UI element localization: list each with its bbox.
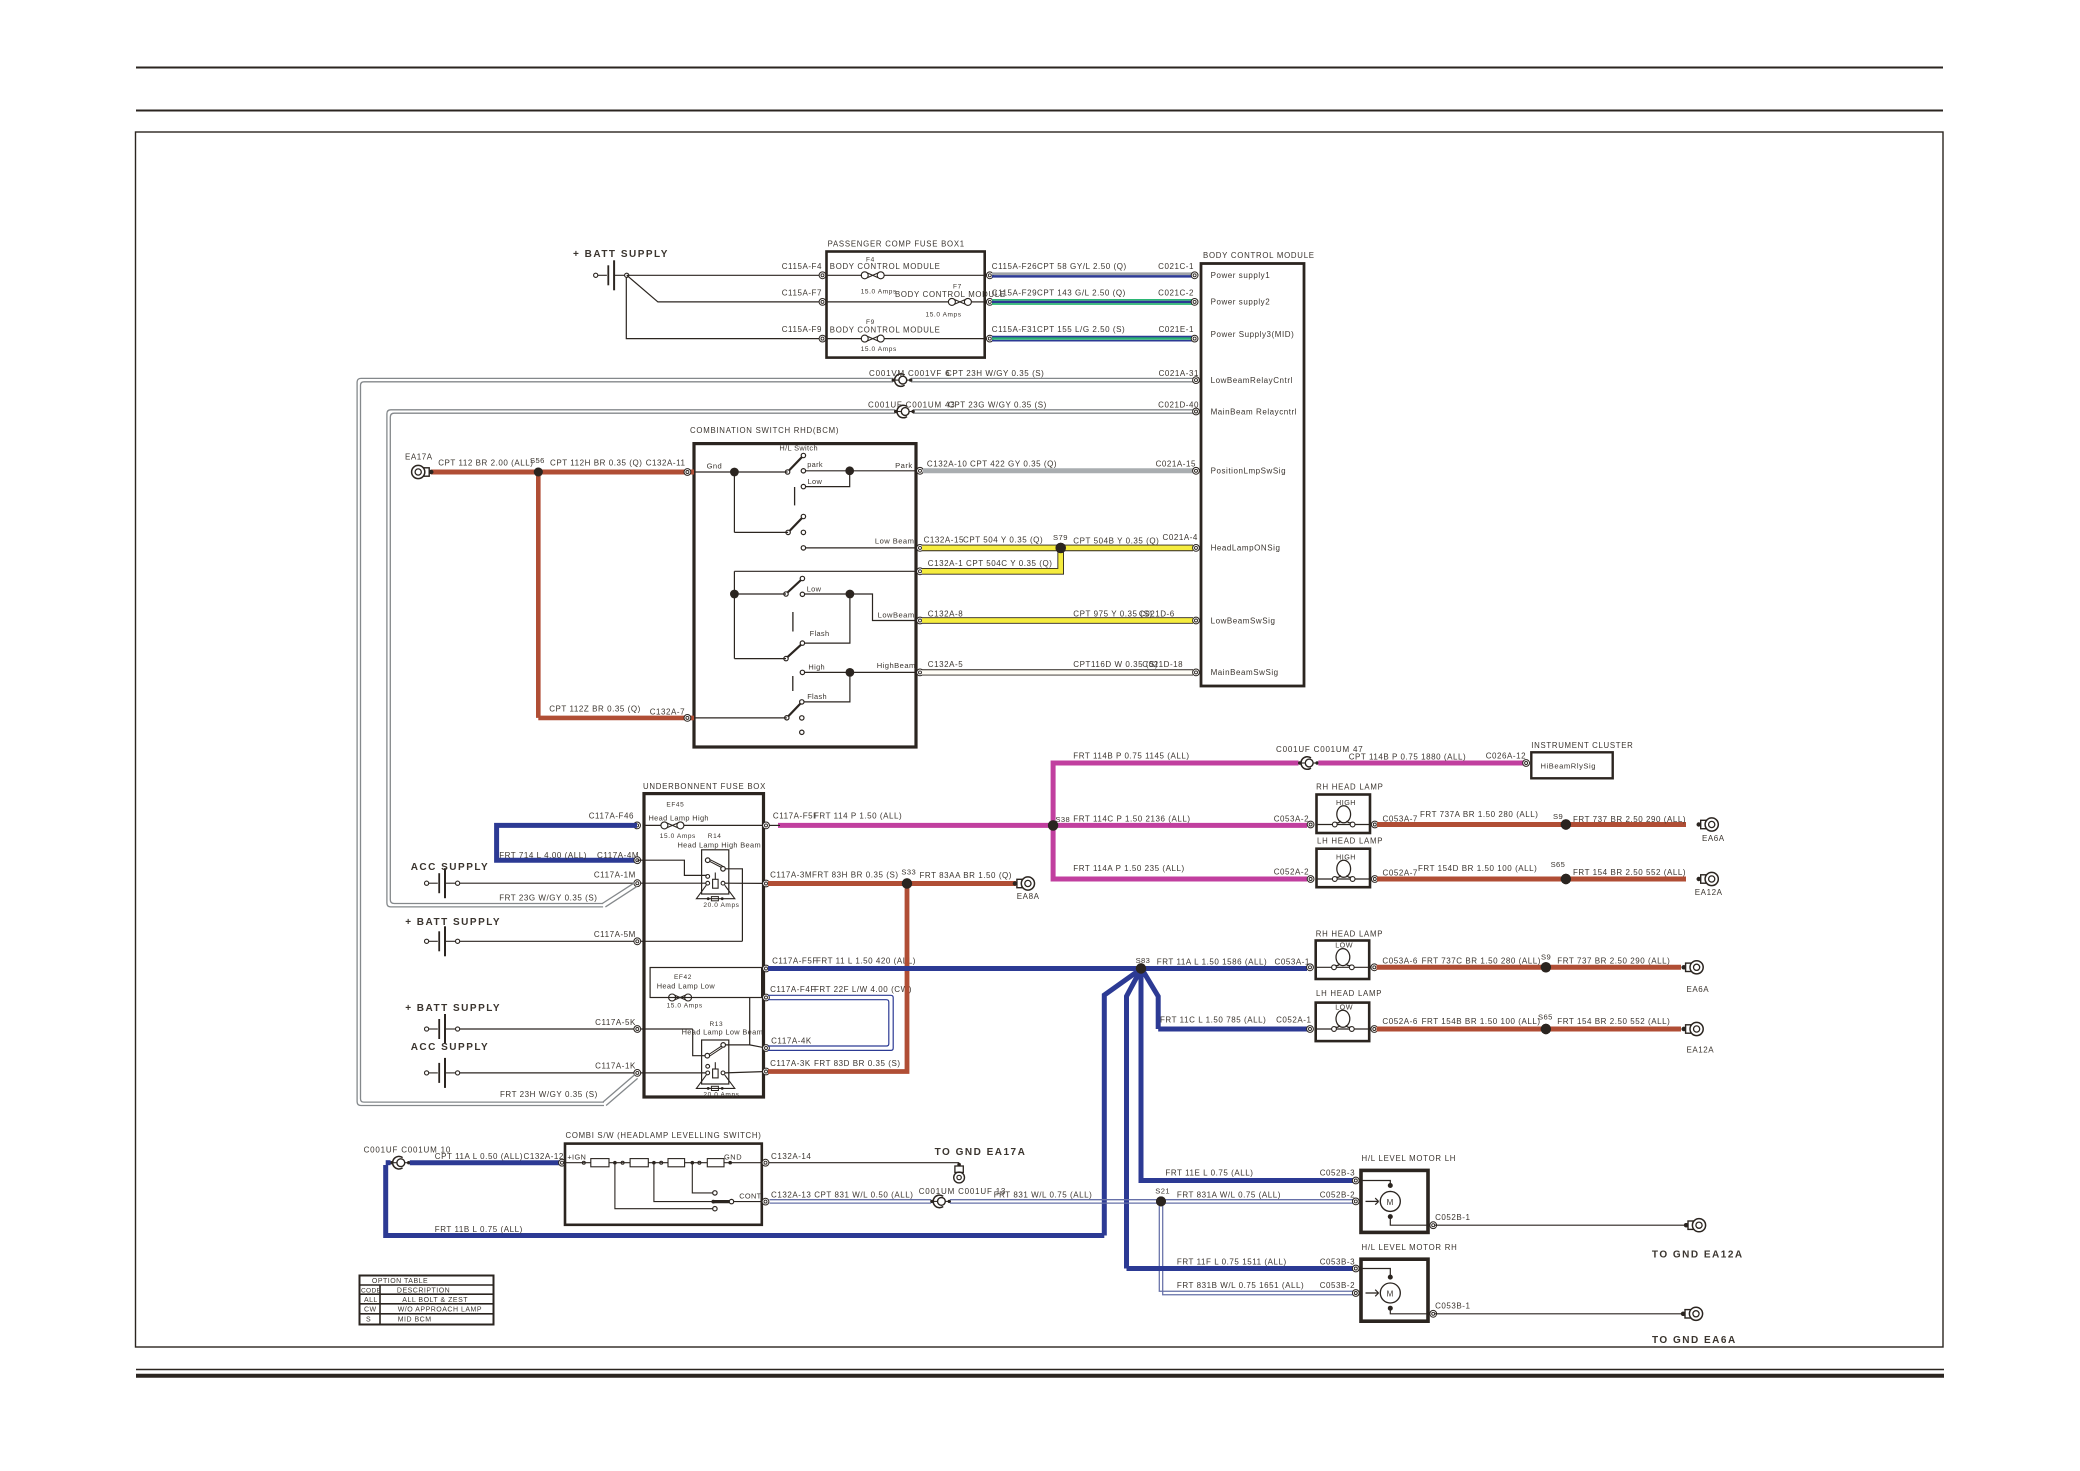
svg-text:S33: S33 (901, 868, 916, 877)
svg-text:S9: S9 (1553, 812, 1563, 821)
wire C052B-1 to gnd (1435, 1223, 1689, 1227)
svg-text:Low Beam: Low Beam (875, 537, 914, 546)
neutral bar dip (792, 612, 794, 632)
svg-text:S21: S21 (1155, 1187, 1170, 1196)
wire FRT 23G diagonal (499, 883, 637, 907)
pin C021D-18 (1193, 669, 1200, 676)
wire CPT 831 pair (770, 1187, 1007, 1208)
junction S65 low dot (1541, 1024, 1551, 1034)
pin C115A-F9 (782, 325, 826, 342)
svg-text:C115A-F4: C115A-F4 (782, 262, 822, 271)
svg-text:C052B-1: C052B-1 (1435, 1213, 1470, 1222)
levelling resistor ladder (565, 1159, 764, 1167)
junction S83 dot (1136, 963, 1146, 973)
svg-text:park: park (807, 460, 823, 469)
wire FRT 737 BR (1566, 815, 1686, 824)
connector C001UF C001UM (868, 401, 956, 418)
svg-text:15.0 Amps: 15.0 Amps (660, 833, 696, 840)
pin comb switch out 672.4 (917, 669, 924, 676)
svg-text:FRT 154D BR 1.50 100 (ALL): FRT 154D BR 1.50 100 (ALL) (1418, 864, 1537, 873)
pin C052A-1 (1307, 1026, 1314, 1033)
svg-text:C132A-5: C132A-5 (928, 660, 963, 669)
levelling wiper (711, 1192, 765, 1204)
svg-text:CPT 112H BR 0.35 (Q): CPT 112H BR 0.35 (Q) (550, 458, 643, 467)
junction S38 (1048, 815, 1070, 831)
fuse EF42 (650, 968, 762, 1010)
svg-text:ALL BOLT & ZEST: ALL BOLT & ZEST (402, 1297, 468, 1304)
BCM pin label Power supply1 (1211, 271, 1271, 280)
wire lowbeam out (806, 537, 916, 548)
wire FRT 11F L (1127, 1257, 1356, 1268)
eyelet EA6A low (1681, 961, 1709, 994)
RH head lamp low box (1316, 930, 1384, 979)
contact lowbeam (801, 546, 805, 550)
svg-text:H/L LEVEL MOTOR RH: H/L LEVEL MOTOR RH (1362, 1243, 1458, 1252)
svg-text:FRT 114C P 1.50 2136 (ALL): FRT 114C P 1.50 2136 (ALL) (1073, 815, 1190, 824)
svg-text:CPT 112Z BR 0.35 (Q): CPT 112Z BR 0.35 (Q) (549, 705, 641, 714)
wire FRT 83AA BR (907, 871, 1016, 883)
wire C132A-1 row internal (734, 570, 916, 572)
pin C115A-F26 (986, 272, 993, 279)
underbonnet fuse box (643, 782, 766, 1097)
svg-text:FRT 11 L 1.50 420 (ALL): FRT 11 L 1.50 420 (ALL) (816, 957, 916, 966)
svg-text:FRT 114B P 0.75 1145 (ALL): FRT 114B P 0.75 1145 (ALL) (1073, 752, 1189, 761)
pin C021A-4 (1193, 545, 1200, 552)
pin C115A-F29 (986, 299, 993, 306)
wire CPT 504C Y (922, 548, 1061, 571)
svg-text:COMBINATION SWITCH RHD(BCM): COMBINATION SWITCH RHD(BCM) (690, 426, 839, 435)
svg-text:DESCRIPTION: DESCRIPTION (397, 1287, 450, 1294)
pin C117A-4M (634, 857, 641, 864)
svg-text:C052A-1: C052A-1 (1276, 1015, 1311, 1024)
svg-text:C021C-1: C021C-1 (1158, 262, 1194, 271)
label H/L Switch (779, 444, 818, 453)
wire CPT 155 L/G (992, 325, 1194, 341)
wire FRT 83D BR (768, 885, 907, 1072)
svg-text:15.0 Amps: 15.0 Amps (861, 289, 897, 296)
fuse F9 (827, 319, 985, 353)
wire CPT 143 G/L (992, 288, 1194, 304)
junction S56 dot (534, 468, 543, 477)
bottom rule thin (136, 1369, 1944, 1371)
wire FRT 154B BR (1377, 1012, 1553, 1029)
svg-text:CPT 112 BR 2.00 (ALL): CPT 112 BR 2.00 (ALL) (438, 458, 533, 467)
pin C117A-F46 (589, 812, 641, 829)
svg-text:CPT 58 GY/L 2.50 (Q): CPT 58 GY/L 2.50 (Q) (1037, 262, 1127, 271)
svg-text:High: High (808, 663, 825, 672)
junction S9 low dot (1541, 962, 1551, 972)
svg-text:C021D-40: C021D-40 (1158, 401, 1199, 410)
junction S33 dot (902, 878, 912, 888)
wire R14 coil out (725, 882, 766, 884)
contact dip low (800, 585, 821, 597)
svg-text:FRT 83AA BR 1.50 (Q): FRT 83AA BR 1.50 (Q) (920, 871, 1013, 880)
pin C117A-1M (594, 871, 641, 887)
wire FRT 11E L (1141, 1169, 1355, 1181)
pin C053A-2 (1307, 821, 1314, 828)
pin C021D-6 (1193, 617, 1200, 624)
svg-text:ACC SUPPLY: ACC SUPPLY (411, 862, 490, 873)
relay R13 (682, 1021, 763, 1099)
pin C132A-11 (684, 469, 691, 476)
svg-text:FRT 22F L/W 4.00 (CW): FRT 22F L/W 4.00 (CW) (814, 985, 912, 994)
wire FRT 114A (1053, 864, 1309, 879)
eyelet gnd EA12A motor (1652, 1219, 1744, 1261)
svg-text:S56: S56 (530, 456, 545, 465)
switch park arm (785, 453, 805, 474)
wire gnd to park pivot (694, 471, 788, 473)
svg-text:EA8A: EA8A (1017, 892, 1040, 901)
svg-text:Flash: Flash (807, 692, 827, 701)
svg-text:CPT 11A L 0.50 (ALL): CPT 11A L 0.50 (ALL) (435, 1152, 523, 1161)
pin C052A-2 (1307, 876, 1314, 883)
gnd bus down (734, 472, 788, 532)
svg-text:20.0 Amps: 20.0 Amps (703, 1092, 739, 1099)
combi s/w levelling box (565, 1131, 762, 1225)
pin C117A-1K (595, 1062, 641, 1077)
eyelet EA12A high (1695, 872, 1723, 897)
wire CPT 114B (1318, 752, 1526, 763)
svg-text:C132A-14: C132A-14 (771, 1152, 811, 1161)
svg-text:C115A-F31: C115A-F31 (992, 325, 1037, 334)
svg-text:CPT 504C Y 0.35 (Q): CPT 504C Y 0.35 (Q) (966, 559, 1053, 568)
switch onoff arm (786, 514, 806, 534)
svg-text:15.0 Amps: 15.0 Amps (861, 346, 897, 353)
svg-text:FRT 737 BR 2.50 290 (ALL): FRT 737 BR 2.50 290 (ALL) (1573, 815, 1686, 824)
label CPT 112H (550, 458, 686, 467)
pin C117A-5M (594, 930, 641, 944)
wire CPT 975 Y (922, 610, 1193, 621)
svg-text:MainBeamSwSig: MainBeamSwSig (1211, 668, 1279, 677)
junction S65 low (1541, 1024, 1551, 1034)
svg-text:C053A-6: C053A-6 (1382, 957, 1417, 966)
wire dip flash to node (805, 594, 850, 643)
junction S9 dot (1561, 819, 1571, 829)
fuse EF45 (644, 802, 764, 841)
wire FRT 831 pair (950, 1190, 1161, 1203)
svg-text:C021A-31: C021A-31 (1159, 369, 1199, 378)
contact dip flash (800, 629, 829, 645)
wire high out (805, 661, 916, 677)
wire 5M row (460, 940, 742, 942)
option table (360, 1276, 494, 1325)
connector C001VM C001VF (869, 369, 950, 386)
wire FRT 154 BR (1566, 868, 1686, 879)
svg-text:FRT 714 L 4.00 (ALL): FRT 714 L 4.00 (ALL) (499, 851, 587, 860)
wire CPT 504 Y (922, 533, 1198, 548)
wire 1K row (460, 1072, 706, 1074)
svg-text:EA12A: EA12A (1695, 888, 1723, 897)
svg-text:Flash: Flash (810, 629, 830, 638)
switch dip low arm (784, 576, 805, 596)
junction S56 (530, 456, 545, 477)
ground EA17A symbol (935, 1147, 1027, 1183)
svg-text:FRT 831A W/L 0.75 (ALL): FRT 831A W/L 0.75 (ALL) (1177, 1190, 1281, 1199)
svg-text:RH HEAD LAMP: RH HEAD LAMP (1316, 782, 1384, 791)
pin C115A-F7 (782, 288, 826, 305)
wire FRT 83H BR (768, 871, 907, 884)
pin CONT C132A-13 (762, 1191, 913, 1206)
eyelet EA17A (405, 453, 433, 479)
wire FRT 11B L (386, 1163, 1105, 1236)
svg-text:BODY CONTROL MODULE: BODY CONTROL MODULE (1203, 251, 1315, 260)
svg-text:C026A-12: C026A-12 (1486, 752, 1526, 761)
svg-text:EA17A: EA17A (405, 453, 433, 462)
pin C052A-6 (1371, 1026, 1378, 1033)
svg-text:FRT 154 BR 2.50 552 (ALL): FRT 154 BR 2.50 552 (ALL) (1557, 1017, 1670, 1026)
BCM pin label Power supply2 (1211, 298, 1271, 307)
wire C117A-4M to R14 coil (637, 860, 707, 875)
neutral bar park (794, 487, 796, 505)
neutral bar high (792, 676, 794, 691)
wire FRT 737A BR (1377, 810, 1563, 824)
svg-text:INSTRUMENT CLUSTER: INSTRUMENT CLUSTER (1531, 741, 1633, 750)
pin C053A-1 (1307, 964, 1314, 971)
svg-text:C132A-12: C132A-12 (524, 1152, 564, 1161)
wire FRT 114C (1053, 815, 1309, 826)
svg-text:CPT 114B P 0.75 1880 (ALL): CPT 114B P 0.75 1880 (ALL) (1349, 753, 1466, 762)
svg-text:HIGH: HIGH (1336, 798, 1356, 807)
svg-text:HighBeam: HighBeam (877, 661, 916, 670)
junction S38 dot (1048, 820, 1058, 830)
svg-text:S65: S65 (1538, 1012, 1553, 1021)
battery +BATT SUPPLY 3 (405, 1003, 501, 1044)
wire R14 contact to 5M (725, 869, 742, 942)
passenger comp fuse box1 (827, 240, 985, 358)
dip bus (730, 571, 786, 658)
wire fan 11E (1139, 969, 1144, 1181)
svg-text:M: M (1387, 1289, 1394, 1298)
contact low (801, 477, 822, 489)
svg-text:Head Lamp High: Head Lamp High (649, 813, 709, 822)
wire batt to fuse F9 (626, 277, 822, 339)
pin C115A-F31 (986, 335, 993, 342)
junction S9 low (1541, 962, 1551, 972)
svg-text:CPT 23G W/GY 0.35 (S): CPT 23G W/GY 0.35 (S) (948, 401, 1047, 410)
svg-text:MainBeam Relaycntrl: MainBeam Relaycntrl (1211, 407, 1297, 416)
pin C021D-40 (1193, 408, 1200, 415)
svg-text:PASSENGER COMP FUSE BOX1: PASSENGER COMP FUSE BOX1 (828, 240, 965, 249)
svg-text:CPT 155 L/G 2.50 (S): CPT 155 L/G 2.50 (S) (1037, 325, 1125, 334)
svg-text:EA6A: EA6A (1687, 985, 1710, 994)
BCM pin label LowBeamSwSig (1211, 616, 1276, 625)
svg-text:FRT 83D BR 0.35 (S): FRT 83D BR 0.35 (S) (814, 1059, 901, 1068)
svg-text:FRT 737 BR 2.50 290 (ALL): FRT 737 BR 2.50 290 (ALL) (1557, 957, 1670, 966)
pin C021C-2 (1191, 299, 1198, 306)
svg-text:Low: Low (808, 477, 823, 486)
battery ACC SUPPLY 1 (411, 862, 490, 898)
diagram border frame (136, 132, 1944, 1347)
svg-text:15.0 Amps: 15.0 Amps (926, 312, 962, 319)
pin C021C-1 (1191, 272, 1198, 279)
top rule 2 (136, 110, 1943, 112)
svg-text:FRT 83H BR 0.35 (S): FRT 83H BR 0.35 (S) (812, 871, 899, 880)
svg-text:Head Lamp Low Beam: Head Lamp Low Beam (682, 1028, 763, 1037)
svg-text:FRT 11F L 0.75 1511 (ALL): FRT 11F L 0.75 1511 (ALL) (1177, 1257, 1287, 1266)
junction S83 (1136, 956, 1151, 974)
label Gnd (707, 462, 723, 471)
svg-text:LH HEAD LAMP: LH HEAD LAMP (1316, 989, 1382, 998)
wire fan to 11F (1127, 970, 1141, 1268)
wire FRT 114B (1053, 752, 1298, 827)
svg-text:BODY CONTROL MODULE: BODY CONTROL MODULE (895, 290, 1006, 299)
RH head lamp high box (1316, 782, 1384, 833)
pin C117A-F5F blue (763, 957, 916, 972)
pin C117A-5K (595, 1018, 641, 1033)
H/L level motor RH (1352, 1243, 1470, 1321)
pin C021E-1 (1191, 335, 1198, 342)
svg-text:UNDERBONNENT FUSE BOX: UNDERBONNENT FUSE BOX (643, 782, 766, 791)
bus FRT 23H wire (357, 378, 893, 1105)
svg-text:C132A-8: C132A-8 (928, 610, 963, 619)
svg-text:R14: R14 (708, 833, 722, 840)
label Park out (895, 461, 912, 470)
svg-text:C117A-F5F: C117A-F5F (773, 812, 819, 821)
svg-text:+IGN: +IGN (567, 1153, 586, 1162)
svg-text:C117A-1M: C117A-1M (594, 871, 636, 880)
wire CPT 58 GY/L (992, 262, 1194, 277)
svg-text:PositionLmpSwSig: PositionLmpSwSig (1211, 467, 1287, 476)
svg-text:C053A-2: C053A-2 (1274, 815, 1309, 824)
svg-text:C117A-5M: C117A-5M (594, 930, 636, 939)
pin C117A-F4F (763, 985, 912, 1001)
svg-text:FRT 737A BR 1.50 280 (ALL): FRT 737A BR 1.50 280 (ALL) (1420, 810, 1539, 819)
svg-text:C001VM C001VF 6: C001VM C001VF 6 (869, 369, 950, 378)
wire high flash to node (804, 672, 850, 702)
contact high (800, 663, 825, 675)
wire FRT 11C to pin (1158, 1015, 1311, 1029)
relay R14 (678, 833, 761, 909)
LH head lamp low box (1316, 989, 1383, 1041)
pin C117A-4K (763, 1037, 812, 1052)
svg-text:FRT 114A P 1.50 235 (ALL): FRT 114A P 1.50 235 (ALL) (1073, 864, 1184, 873)
wire fan to 11B (1104, 970, 1139, 1236)
svg-text:CONT: CONT (739, 1192, 761, 1201)
pin comb switch out 470.8 (917, 467, 924, 474)
spare contact 1 (800, 716, 804, 720)
svg-text:Park: Park (895, 461, 912, 470)
pin comb switch out 571.3 (917, 568, 924, 575)
wire FRT 22F L/W pair (768, 995, 893, 1050)
bottom rule thick (136, 1374, 1944, 1378)
svg-text:FRT 737C BR 1.50 280 (ALL): FRT 737C BR 1.50 280 (ALL) (1422, 957, 1541, 966)
svg-text:Power supply2: Power supply2 (1211, 298, 1271, 307)
switch high flash arm (785, 703, 801, 720)
wire pivot feed (694, 717, 787, 719)
label CPT 23H (946, 369, 1199, 378)
svg-text:CPT 504 Y 0.35 (Q): CPT 504 Y 0.35 (Q) (963, 536, 1043, 545)
pin C026A-12 (1523, 760, 1530, 767)
svg-text:C021C-2: C021C-2 (1158, 288, 1194, 297)
wire FRT 737 BR low (1546, 957, 1687, 970)
svg-text:FRT 11E L 0.75 (ALL): FRT 11E L 0.75 (ALL) (1165, 1169, 1253, 1178)
svg-text:EA6A: EA6A (1702, 834, 1725, 843)
svg-text:HeadLampONSig: HeadLampONSig (1211, 544, 1281, 553)
fuse F4 (827, 257, 985, 296)
svg-text:FRT 831 W/L 0.75 (ALL): FRT 831 W/L 0.75 (ALL) (994, 1190, 1093, 1199)
svg-text:GND: GND (724, 1153, 742, 1162)
pin C117A-3K (763, 1059, 901, 1075)
svg-text:ALL: ALL (364, 1297, 378, 1304)
junction S79 dot (1056, 543, 1066, 553)
svg-text:M: M (1387, 1198, 1394, 1207)
BCM pin label HeadLampONSig (1211, 544, 1281, 553)
svg-text:CW: CW (364, 1307, 376, 1314)
pin C132A-14 (762, 1152, 811, 1166)
wire CPT 116D W (922, 660, 1193, 672)
svg-text:C117A-4K: C117A-4K (771, 1037, 812, 1046)
svg-text:C021A-15: C021A-15 (1156, 460, 1196, 469)
svg-text:Head Lamp High Beam: Head Lamp High Beam (678, 841, 761, 850)
LH head lamp high box (1317, 836, 1384, 887)
BCM pin label LowBeamRelayCntrl (1211, 376, 1293, 385)
label CPT 23G (948, 401, 1199, 410)
wire FRT 114 from fuse (778, 823, 1053, 828)
wire CPT 11A L (410, 1152, 564, 1163)
junction S65 dot (1561, 874, 1571, 884)
svg-text:OPTION TABLE: OPTION TABLE (372, 1278, 428, 1285)
svg-text:Head Lamp Low: Head Lamp Low (657, 981, 716, 990)
switch dip flash arm (734, 645, 801, 661)
battery +BATT SUPPLY top (573, 249, 669, 290)
junction S9 high (1561, 819, 1571, 829)
BCM pin label Power Supply3(MID) (1211, 330, 1295, 339)
svg-text:C052A-2: C052A-2 (1274, 868, 1309, 877)
svg-text:C115A-F26: C115A-F26 (992, 262, 1037, 271)
pin C053A-7 (1371, 821, 1378, 828)
wire fan to 11C (1143, 970, 1159, 1029)
wire FRT 11 L (768, 966, 1141, 971)
junction S65 high (1561, 874, 1571, 884)
eyelet EA12A low (1681, 1022, 1714, 1054)
svg-text:C132A-15: C132A-15 (924, 536, 964, 545)
svg-text:HIGH: HIGH (1336, 852, 1356, 861)
svg-text:C001UF C001UM 43: C001UF C001UM 43 (868, 401, 956, 410)
svg-text:RH HEAD LAMP: RH HEAD LAMP (1316, 930, 1384, 939)
contact park (801, 460, 823, 473)
BCM pin label MainBeam Relaycntrl (1211, 407, 1297, 416)
svg-text:C053B-3: C053B-3 (1320, 1257, 1355, 1266)
svg-text:C117A-4M: C117A-4M (597, 851, 639, 860)
wire 5K row (460, 1029, 705, 1056)
svg-text:C117A-F4F: C117A-F4F (770, 985, 816, 994)
BCM pin label PositionLmpSwSig (1211, 467, 1287, 476)
svg-text:C052B-3: C052B-3 (1320, 1169, 1355, 1178)
eyelet EA6A high (1697, 818, 1725, 843)
junction gnd (730, 468, 739, 477)
svg-text:HiBeamRlySig: HiBeamRlySig (1541, 762, 1597, 771)
svg-text:C021A-4: C021A-4 (1163, 533, 1198, 542)
svg-text:FRT 23H W/GY 0.35 (S): FRT 23H W/GY 0.35 (S) (500, 1090, 598, 1099)
svg-text:EF45: EF45 (666, 802, 684, 809)
wire C053B-1 to gnd (1435, 1312, 1686, 1316)
wire FRT 831A pair (1161, 1190, 1355, 1203)
junction S33 (901, 868, 916, 889)
wire C117A-1M to R14 coil (460, 882, 706, 884)
svg-text:+ BATT SUPPLY: + BATT SUPPLY (573, 249, 669, 260)
wire FRT 737C BR (1377, 953, 1552, 968)
svg-text:FRT 11C L 1.50 785 (ALL): FRT 11C L 1.50 785 (ALL) (1160, 1015, 1266, 1024)
wire to gnd EA17A (769, 1162, 959, 1164)
wire CPT 23G row (913, 410, 1196, 413)
svg-text:C132A-11: C132A-11 (646, 458, 686, 467)
junction S79 (1053, 533, 1068, 553)
svg-text:TO GND EA6A: TO GND EA6A (1652, 1335, 1737, 1346)
svg-text:BODY CONTROL MODULE: BODY CONTROL MODULE (830, 262, 941, 271)
svg-text:C132A-1: C132A-1 (928, 559, 963, 568)
eyelet gnd EA6A motor (1652, 1307, 1737, 1346)
wire dip low out (805, 590, 916, 621)
